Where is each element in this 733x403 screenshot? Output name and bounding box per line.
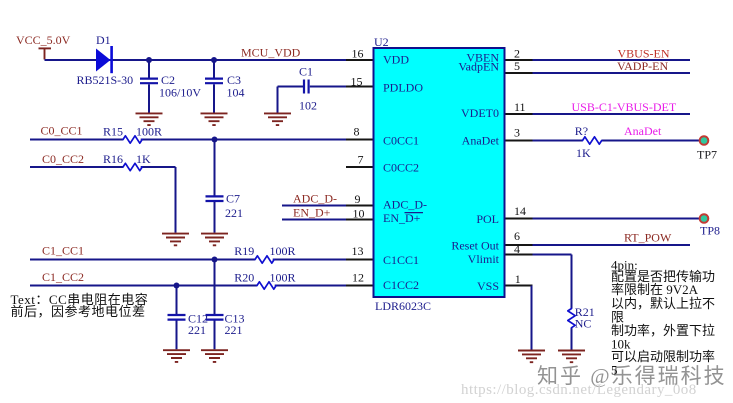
svg-text:C1: C1 [299, 65, 313, 79]
svg-text:VDET0: VDET0 [461, 106, 499, 120]
svg-text:R16: R16 [103, 152, 123, 166]
svg-text:VADP-EN: VADP-EN [617, 59, 668, 73]
svg-text:LDR6023C: LDR6023C [375, 299, 431, 313]
svg-text:C1_CC1: C1_CC1 [42, 244, 84, 258]
svg-text:RT_POW: RT_POW [624, 230, 672, 244]
svg-text:10: 10 [353, 206, 365, 220]
svg-text:R15: R15 [103, 124, 123, 138]
svg-text:5: 5 [611, 363, 618, 378]
svg-text:4: 4 [514, 242, 520, 256]
svg-text:C1CC1: C1CC1 [383, 253, 419, 267]
svg-text:R19: R19 [234, 244, 254, 258]
svg-text:12: 12 [352, 271, 364, 285]
svg-text:1K: 1K [136, 152, 151, 166]
svg-text:15: 15 [351, 75, 363, 89]
svg-text:POL: POL [476, 212, 499, 226]
svg-text:106/10V: 106/10V [159, 85, 201, 99]
svg-text:MCU_VDD: MCU_VDD [241, 46, 301, 60]
svg-text:可以启动限制功率: 可以启动限制功率 [611, 349, 715, 364]
svg-text:221: 221 [225, 206, 243, 220]
svg-text:PDLDO: PDLDO [383, 81, 423, 95]
svg-text:5: 5 [514, 59, 520, 73]
svg-text:C1CC2: C1CC2 [383, 278, 419, 292]
svg-text:TP8: TP8 [700, 223, 720, 237]
svg-text:221: 221 [225, 323, 243, 337]
svg-text:R?: R? [575, 124, 588, 138]
svg-text:6: 6 [514, 229, 520, 243]
svg-text:https://blog.csdn.net/Legendar: https://blog.csdn.net/Legendary_0o8 [461, 382, 697, 398]
svg-text:VCC_5.0V: VCC_5.0V [16, 33, 71, 47]
svg-text:VadpEN: VadpEN [458, 60, 499, 74]
svg-text:102: 102 [299, 98, 317, 112]
svg-text:100R: 100R [270, 244, 296, 258]
svg-text:16: 16 [352, 47, 364, 61]
svg-text:100R: 100R [270, 271, 296, 285]
svg-text:VDD: VDD [383, 53, 409, 67]
svg-text:AnaDet: AnaDet [462, 134, 500, 148]
svg-text:9: 9 [355, 192, 361, 206]
svg-text:NC: NC [575, 317, 592, 331]
svg-text:ADC_D-: ADC_D- [383, 198, 427, 212]
svg-text:C0CC2: C0CC2 [383, 161, 419, 175]
svg-text:1: 1 [515, 272, 521, 286]
svg-text:13: 13 [352, 244, 364, 258]
svg-text:14: 14 [514, 204, 526, 218]
svg-text:C7: C7 [226, 192, 240, 206]
svg-text:VSS: VSS [477, 279, 499, 293]
svg-text:C0_CC1: C0_CC1 [41, 124, 83, 138]
svg-text:C1_CC2: C1_CC2 [42, 270, 84, 284]
svg-text:R20: R20 [234, 271, 254, 285]
svg-text:104: 104 [227, 85, 245, 99]
svg-text:ADC_D-: ADC_D- [293, 192, 337, 206]
svg-text:Vlimit: Vlimit [468, 252, 500, 266]
svg-text:以内，默认上拉不: 以内，默认上拉不 [611, 296, 715, 311]
svg-text:100R: 100R [136, 124, 162, 138]
svg-text:221: 221 [188, 323, 206, 337]
svg-text:C0_CC2: C0_CC2 [42, 152, 84, 166]
svg-text:率限制在 9V2A: 率限制在 9V2A [611, 282, 699, 297]
svg-text:Reset Out: Reset Out [451, 239, 499, 253]
svg-text:USB-C1-VBUS-DET: USB-C1-VBUS-DET [572, 100, 677, 114]
svg-text:U2: U2 [374, 35, 389, 49]
svg-text:RB521S-30: RB521S-30 [77, 73, 134, 87]
svg-text:D1: D1 [96, 33, 111, 47]
svg-text:前后，因参考地电位差: 前后，因参考地电位差 [11, 304, 146, 319]
svg-text:3: 3 [514, 126, 520, 140]
svg-text:C0CC1: C0CC1 [383, 134, 419, 148]
svg-text:7: 7 [358, 153, 364, 167]
svg-text:8: 8 [354, 124, 360, 138]
svg-text:1K: 1K [576, 146, 591, 160]
svg-text:TP7: TP7 [697, 148, 717, 162]
svg-text:EN_D+: EN_D+ [293, 206, 331, 220]
svg-text:AnaDet: AnaDet [624, 124, 662, 138]
svg-text:11: 11 [514, 100, 526, 114]
